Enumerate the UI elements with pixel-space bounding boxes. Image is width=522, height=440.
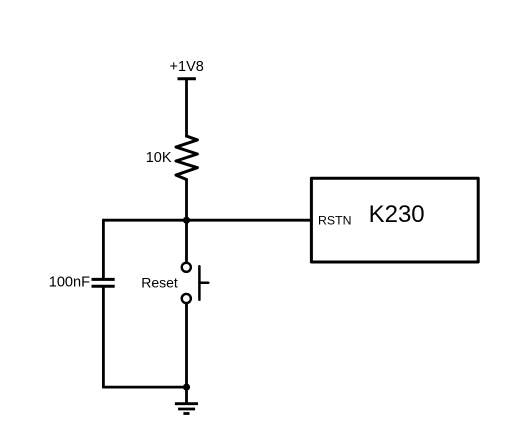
svg-text:Reset: Reset — [141, 274, 178, 290]
ground symbol — [175, 387, 198, 413]
power rail symbol +1V8 — [178, 77, 196, 80]
svg-text:10K: 10K — [146, 150, 172, 166]
wire node RSTN to switch top terminal — [185, 220, 188, 261]
wire from +1V8 to resistor R — [185, 79, 188, 136]
wire bottom rail capacitor to ground node — [103, 386, 186, 389]
wire node RSTN to K230 pin — [187, 219, 312, 222]
pushbutton SW1 Reset bottom terminal — [182, 294, 191, 303]
junction ground node — [183, 384, 190, 391]
IC U1 K230 box — [311, 178, 478, 262]
pushbutton actuator stub — [199, 282, 208, 285]
resistor 10K — [176, 136, 197, 179]
wire node RSTN to capacitor branch — [103, 219, 186, 222]
wire capacitor to bottom rail — [102, 288, 105, 387]
pushbutton SW1 Reset top terminal — [182, 263, 191, 272]
wire switch bottom terminal to ground node — [185, 304, 188, 387]
pushbutton actuator bar — [198, 266, 201, 299]
svg-text:100nF: 100nF — [49, 275, 90, 291]
wire from resistor to node RSTN — [185, 180, 188, 221]
svg-text:K230: K230 — [369, 201, 425, 228]
junction node RSTN — [183, 217, 190, 224]
svg-text:RSTN: RSTN — [318, 214, 351, 228]
wire capacitor branch down to capacitor — [102, 220, 105, 278]
svg-text:+1V8: +1V8 — [170, 59, 204, 75]
capacitor C 100nF — [92, 279, 115, 286]
